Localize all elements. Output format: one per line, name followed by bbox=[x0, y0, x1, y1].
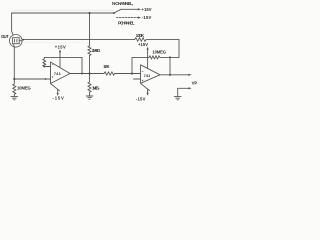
svg-text:741: 741 bbox=[144, 73, 151, 78]
svg-text:N-CHANNEL,: N-CHANNEL, bbox=[112, 1, 133, 6]
node DUT gate terminal bbox=[22, 39, 24, 41]
transistor DUT envelope bbox=[10, 35, 23, 48]
sign minus U2 bbox=[142, 70, 143, 72]
node U1 -input bbox=[43, 66, 45, 68]
node supply column bottom bbox=[88, 72, 90, 74]
svg-text:741: 741 bbox=[54, 71, 62, 76]
node feedback tee bbox=[169, 56, 171, 58]
wire DUT gate horizontal bbox=[22, 39, 135, 41]
resistor R3 100K bbox=[135, 38, 179, 42]
switch S1 pivot bbox=[113, 12, 115, 14]
transistor DUT internals bbox=[12, 38, 22, 48]
svg-text:VP: VP bbox=[192, 80, 198, 85]
node U2 -input bbox=[131, 72, 133, 74]
svg-text:1MEG: 1MEG bbox=[92, 86, 100, 91]
node U1 feedback output bbox=[81, 73, 83, 75]
op-amp U1 lower leg bbox=[51, 84, 60, 91]
wire drain riser bbox=[12, 13, 14, 35]
wire to +15V bbox=[121, 8, 138, 10]
svg-text:DUT: DUT bbox=[1, 34, 9, 39]
op-amp U1 V- lead bbox=[57, 89, 59, 94]
svg-text:-15V: -15V bbox=[136, 96, 146, 101]
ground GND2 bbox=[174, 97, 181, 100]
wire U2 feedback left drop bbox=[131, 57, 133, 73]
arrowhead output bbox=[188, 74, 191, 76]
ground GND3 bbox=[86, 96, 93, 99]
arrowhead U1 V+ bbox=[59, 49, 61, 52]
svg-text:10MEG: 10MEG bbox=[152, 49, 166, 54]
arrowhead U1 V- bbox=[57, 93, 59, 96]
wire supply column bbox=[89, 13, 91, 46]
wire U2 feedback top bbox=[132, 56, 149, 58]
svg-text:+15V: +15V bbox=[142, 7, 152, 12]
wire output riser bbox=[169, 57, 171, 74]
svg-text:-15V: -15V bbox=[142, 15, 152, 20]
wire U1 inverting stub bbox=[44, 66, 50, 68]
arrowhead +15V switch bbox=[138, 8, 141, 10]
svg-text:100K: 100K bbox=[136, 33, 144, 38]
wire output ground arm bbox=[178, 88, 190, 96]
op-amp U1 V+ lead bbox=[59, 51, 61, 68]
ground GND1 bbox=[11, 97, 18, 100]
svg-text:1MEG: 1MEG bbox=[92, 48, 101, 53]
op-amp U2 lower leg bbox=[141, 83, 150, 90]
arrowhead U2 V+ bbox=[147, 47, 149, 50]
ghost scan line bbox=[12, 9, 113, 11]
resistor R6 to ground bbox=[88, 74, 91, 96]
switch S1 blade bbox=[114, 9, 121, 13]
arrowhead output ground bbox=[188, 87, 191, 89]
wire to -15V dashed bbox=[117, 17, 139, 19]
node source-rail junction bbox=[13, 78, 15, 80]
wire U2 noninverting stub bbox=[134, 78, 141, 80]
wire U1 feedback top bbox=[44, 56, 82, 58]
sign plus U1 bbox=[52, 76, 53, 77]
sign plus U2 bbox=[142, 80, 143, 81]
resistor R4 10K bbox=[104, 72, 141, 75]
svg-text:P-CHANNEL: P-CHANNEL bbox=[118, 20, 135, 25]
op-amp U1 bbox=[51, 62, 71, 84]
op-amp U2 bbox=[141, 65, 161, 84]
svg-text:+15V: +15V bbox=[55, 44, 66, 49]
svg-text:+15V: +15V bbox=[138, 42, 148, 47]
junction top rail bbox=[88, 12, 90, 14]
sign minus U1 bbox=[52, 64, 53, 66]
ghost scan line 2 bbox=[24, 42, 88, 44]
op-amp U2 V+ lead bbox=[147, 48, 149, 68]
resistor U1 feedback zigzag bbox=[43, 57, 46, 66]
resistor R5 10MEG bbox=[149, 56, 179, 59]
node U1 +input bbox=[45, 78, 47, 80]
wire DUT source drop bbox=[13, 47, 15, 79]
wire supply column lower bbox=[89, 56, 91, 74]
wire U2 output bbox=[160, 74, 190, 76]
wire top rail bbox=[12, 12, 114, 14]
resistor R2 1MEG bbox=[88, 46, 91, 56]
svg-text:10MEG: 10MEG bbox=[17, 86, 31, 91]
wire U1 feedback right drop bbox=[81, 57, 83, 73]
svg-text:-15V: -15V bbox=[53, 96, 65, 101]
wire U1 output to U2 input bbox=[70, 73, 104, 75]
wire noninverting rail op-amp U1 bbox=[14, 78, 50, 80]
arrowhead -15V switch bbox=[138, 17, 141, 19]
resistor R1 10MEG vertical bbox=[13, 79, 16, 96]
arrowhead U2 V- bbox=[147, 93, 149, 96]
svg-text:10K: 10K bbox=[103, 64, 110, 69]
node output junction bbox=[169, 74, 171, 76]
wire right drop from gate line bbox=[178, 40, 180, 58]
op-amp U2 V- lead bbox=[147, 89, 149, 94]
